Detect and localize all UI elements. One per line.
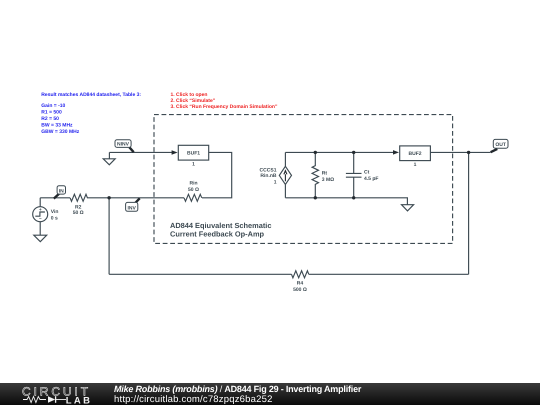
svg-text:Result matches AD844 datasheet: Result matches AD844 datasheet, Table 3:: [41, 92, 141, 98]
capacitor Ct: [346, 152, 362, 197]
note subcircuit title: [170, 221, 271, 239]
dashed subcircuit box: [154, 115, 453, 244]
wire CCCS top rail: [285, 151, 394, 153]
svg-text:Rt: Rt: [322, 171, 328, 177]
svg-text:4.5 pF: 4.5 pF: [364, 176, 378, 182]
arrowhead inside CCCS1: [283, 169, 287, 181]
flag OUT: [491, 139, 508, 152]
junction node Ct top: [352, 151, 355, 154]
resistor R2: [70, 194, 87, 201]
svg-text:Current Feedback Op-Amp: Current Feedback Op-Amp: [170, 230, 265, 239]
svg-text:BW = 33 MHz: BW = 33 MHz: [41, 123, 73, 129]
wire INV vertical: [108, 198, 110, 274]
junction node Rt top: [314, 151, 317, 154]
resistor R4: [292, 271, 309, 278]
flag NINV: [115, 140, 134, 152]
svg-text:GBW = 330 MHz: GBW = 330 MHz: [41, 129, 79, 135]
svg-text:1: 1: [414, 162, 417, 168]
svg-text:50 Ω: 50 Ω: [188, 187, 199, 193]
wire Vin bottom: [39, 222, 41, 236]
note blue annotation: [41, 92, 141, 135]
svg-text:BUF1: BUF1: [187, 151, 200, 157]
flag INV: [126, 198, 140, 211]
svg-text:1: 1: [274, 180, 277, 186]
resistor Rin: [184, 194, 202, 201]
svg-text:50 Ω: 50 Ω: [73, 210, 84, 216]
svg-text:3. Click “Run Frequency Domain: 3. Click “Run Frequency Domain Simulatio…: [171, 104, 278, 110]
ground (internal): [402, 205, 414, 211]
svg-text:Vin: Vin: [51, 209, 59, 215]
resistor Rt: [312, 152, 318, 197]
wire BUF2 output rail: [430, 151, 490, 153]
note red annotation: [171, 92, 278, 110]
svg-text:OUT: OUT: [495, 142, 506, 148]
current source CCCS1: [279, 152, 291, 197]
footer url: [114, 394, 273, 405]
svg-text:0 s: 0 s: [51, 216, 58, 222]
op-amp buffer BUF2: [400, 146, 431, 161]
wire CCCS bottom rail: [285, 198, 407, 205]
svg-text:+: +: [39, 207, 42, 212]
svg-text:R1 = 500: R1 = 500: [41, 110, 62, 116]
op-amp buffer BUF1: [178, 145, 208, 160]
voltage source Vin: [33, 207, 48, 222]
svg-text:−: −: [39, 216, 42, 221]
svg-text:Rin: Rin: [189, 181, 197, 187]
footer title: [114, 384, 361, 394]
CircuitLab logo: [0, 383, 110, 405]
junction node OUT: [467, 151, 470, 154]
svg-text:NINV: NINV: [117, 142, 130, 148]
footer bar: [0, 383, 540, 405]
wire OUT vertical: [468, 152, 470, 274]
ground (NINV): [103, 152, 115, 164]
wire NINV rail: [109, 151, 172, 153]
svg-text:Ct: Ct: [364, 170, 370, 176]
wire bottom rail left: [109, 273, 291, 275]
wire IN rail left: [40, 197, 70, 199]
flag IN: [54, 186, 66, 199]
wire bottom rail right: [309, 273, 469, 275]
wire Rin to BUF1 output: [202, 152, 232, 197]
arrowhead into BUF1: [172, 150, 178, 155]
svg-text:Gain = -10: Gain = -10: [41, 103, 65, 109]
svg-text:500 Ω: 500 Ω: [293, 287, 307, 293]
svg-text:Rin.nB: Rin.nB: [260, 173, 276, 179]
ground (Vin): [34, 235, 47, 242]
svg-text:LAB: LAB: [66, 395, 93, 405]
svg-text:3 MΩ: 3 MΩ: [322, 177, 334, 183]
junction node Rt bottom: [314, 196, 317, 199]
wire Vin top: [39, 198, 41, 207]
svg-text:BUF2: BUF2: [408, 151, 421, 157]
wire IN rail right: [87, 197, 184, 199]
svg-text:R4: R4: [297, 280, 304, 286]
junction node INV: [107, 196, 110, 199]
svg-text:1: 1: [192, 162, 195, 168]
arrowhead into BUF2: [393, 150, 399, 155]
svg-text:INV: INV: [128, 205, 137, 211]
svg-text:R2 = 50: R2 = 50: [41, 116, 59, 122]
svg-text:IN: IN: [59, 188, 64, 194]
junction node Ct bottom: [352, 196, 355, 199]
